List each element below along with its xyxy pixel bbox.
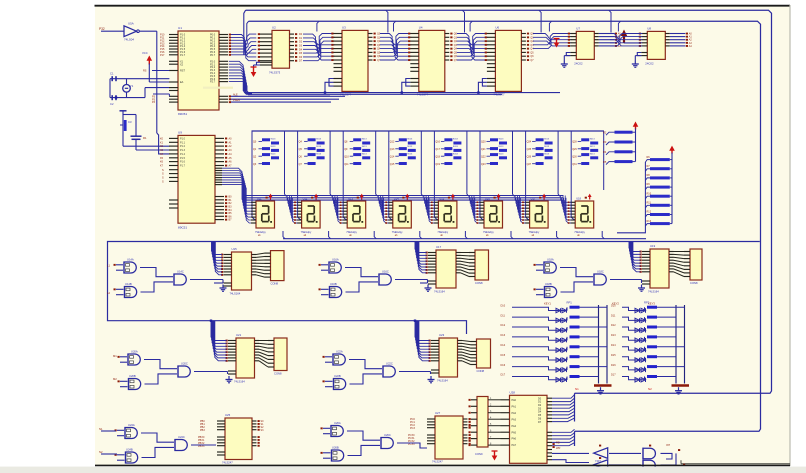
svg-text:U23: U23 <box>439 333 445 337</box>
svg-text:9013: 9013 <box>316 146 322 148</box>
transistor group Q13-Q16 <box>389 131 424 220</box>
svg-text:VCC: VCC <box>142 51 148 55</box>
svg-text:U20C: U20C <box>181 362 188 366</box>
bottom margin strip <box>0 467 806 473</box>
display DS2 <box>297 194 321 238</box>
svg-text:PA6: PA6 <box>512 438 517 441</box>
svg-text:9013: 9013 <box>407 146 413 148</box>
svg-text:D10: D10 <box>611 304 616 307</box>
svg-text:D16: D16 <box>501 364 506 367</box>
svg-text:N2: N2 <box>648 387 652 391</box>
title block corner <box>681 460 790 465</box>
shift register U15 <box>212 242 285 296</box>
svg-text:U19: U19 <box>650 244 656 248</box>
svg-text:24C02: 24C02 <box>645 62 654 66</box>
ground U17 <box>425 285 432 292</box>
wire DS1 common <box>283 231 285 239</box>
svg-text:N2: N2 <box>99 450 103 454</box>
svg-text:ALE: ALE <box>233 93 238 96</box>
svg-text:74LS377: 74LS377 <box>493 93 505 97</box>
svg-text:PA1: PA1 <box>512 405 517 408</box>
svg-text:74LS164: 74LS164 <box>234 380 245 384</box>
svg-text:9013: 9013 <box>590 153 596 155</box>
svg-text:Q30: Q30 <box>572 155 577 158</box>
svg-text:P1.2: P1.2 <box>180 145 186 148</box>
svg-text:U18: U18 <box>576 196 581 200</box>
svg-text:D10: D10 <box>501 304 506 307</box>
wire DS8 common <box>602 231 604 239</box>
wire reset top <box>123 115 136 137</box>
wire s4 tap2 <box>414 320 416 322</box>
svg-text:D13: D13 <box>611 334 616 337</box>
ground U23 <box>428 376 435 383</box>
wire P0 braid <box>231 34 256 61</box>
svg-text:Q25: Q25 <box>527 148 532 151</box>
U2 output labels <box>299 33 303 63</box>
memory U7 <box>568 26 622 65</box>
svg-text:U4: U4 <box>419 25 423 29</box>
display DS4 <box>388 194 412 238</box>
svg-text:U18A: U18A <box>547 258 554 262</box>
svg-text:P17: P17 <box>160 54 165 57</box>
key labels <box>544 302 655 306</box>
svg-text:PB3: PB3 <box>200 429 205 432</box>
connector J2 <box>469 397 501 457</box>
svg-text:Q10: Q10 <box>344 155 349 158</box>
resistor ladder R2-R5 <box>603 122 638 165</box>
gate U30B <box>643 460 655 471</box>
svg-text:P2.7: P2.7 <box>210 81 216 84</box>
latch U2 74LS373 <box>258 26 297 75</box>
transistor group Q5-Q8 <box>298 131 333 220</box>
svg-text:U1: U1 <box>178 26 182 30</box>
transistor group Q25-Q28 <box>526 131 561 220</box>
svg-text:CON9: CON9 <box>475 452 483 456</box>
latch U3 74LS377 <box>331 25 381 96</box>
svg-text:Q26: Q26 <box>527 155 532 158</box>
svg-text:Q17: Q17 <box>435 148 440 151</box>
svg-text:PA3: PA3 <box>512 418 517 421</box>
crystal Y1 <box>123 84 134 92</box>
wire DS6 common <box>511 231 513 239</box>
wire U6 control <box>477 79 487 94</box>
svg-text:9013: 9013 <box>407 139 413 141</box>
svg-text:9013: 9013 <box>316 153 322 155</box>
svg-text:RP1: RP1 <box>567 300 573 304</box>
svg-text:RS: RS <box>143 70 147 73</box>
svg-text:P1.4: P1.4 <box>180 153 186 156</box>
svg-text:9013: 9013 <box>499 153 505 155</box>
svg-text:R3: R3 <box>603 140 607 144</box>
svg-text:Q12: Q12 <box>390 141 395 144</box>
transistor group Q21-Q24 <box>480 131 515 220</box>
svg-text:KEY1: KEY1 <box>544 302 551 306</box>
svg-text:Q16: Q16 <box>435 141 440 144</box>
svg-text:U15: U15 <box>232 247 238 251</box>
svg-text:PA5: PA5 <box>512 431 517 434</box>
svg-text:U28: U28 <box>510 390 516 394</box>
svg-text:U8: U8 <box>647 26 651 30</box>
svg-text:U11: U11 <box>257 196 262 200</box>
wire U3 control <box>324 79 334 94</box>
svg-text:74LS164: 74LS164 <box>437 379 448 383</box>
microcontroller U9 <box>160 130 215 229</box>
wire U9 display bundle <box>222 168 251 223</box>
svg-text:7SEGdpy: 7SEGdpy <box>346 231 357 234</box>
wire U1 left misc <box>153 94 169 96</box>
interface U28 8255 <box>501 390 553 472</box>
svg-text:D17: D17 <box>611 374 616 377</box>
svg-text:U26B: U26B <box>332 446 339 450</box>
svg-text:D14: D14 <box>501 344 506 347</box>
wire U20C out <box>194 372 228 375</box>
wire U8 gnd <box>635 53 641 61</box>
svg-text:U25: U25 <box>225 413 231 417</box>
svg-text:U20A: U20A <box>131 350 138 354</box>
svg-text:7SEGdpy: 7SEGdpy <box>255 231 266 234</box>
svg-text:C1: C1 <box>110 72 114 76</box>
net label P3.2 <box>99 27 124 31</box>
svg-text:D17: D17 <box>501 374 506 377</box>
sheet bottom border line <box>95 464 790 466</box>
wire top bus P0 <box>246 10 772 421</box>
svg-text:L1: L1 <box>107 264 110 268</box>
svg-text:N1: N1 <box>99 427 103 431</box>
svg-text:P1.3: P1.3 <box>180 149 186 152</box>
svg-text:7SEGdpy: 7SEGdpy <box>483 231 494 234</box>
display DS8 <box>570 194 594 238</box>
svg-text:D12: D12 <box>611 324 616 327</box>
svg-text:9013: 9013 <box>453 153 459 155</box>
wire ALE PSEN <box>231 93 345 102</box>
wire U24C out <box>191 444 216 446</box>
wire DS2 fan <box>287 196 298 224</box>
svg-text:D15: D15 <box>611 354 616 357</box>
gate U30A <box>643 445 655 460</box>
svg-text:9013: 9013 <box>590 146 596 148</box>
svg-text:7SEGdpy: 7SEGdpy <box>301 231 312 234</box>
ground U15 <box>220 285 227 292</box>
display DS7 <box>525 194 549 238</box>
buffer U29B <box>594 457 608 470</box>
wire U2 OE <box>254 62 261 67</box>
svg-text:C2: C2 <box>110 102 114 106</box>
wire top bus risers <box>244 10 621 55</box>
svg-text:89C51: 89C51 <box>178 112 187 116</box>
svg-text:U20B: U20B <box>129 374 136 378</box>
svg-text:CON8: CON8 <box>477 369 485 373</box>
svg-text:7SEGdpy: 7SEGdpy <box>437 231 448 234</box>
svg-text:7SEGdpy: 7SEGdpy <box>529 231 540 234</box>
wire xtal top <box>110 79 169 98</box>
net stub s4 <box>113 354 117 381</box>
svg-text:9013: 9013 <box>544 139 550 141</box>
wire U18C out <box>610 280 642 284</box>
wire DS5 common <box>465 231 467 239</box>
wire DS4 fan <box>378 196 389 224</box>
wire inverter output <box>140 31 170 154</box>
wire U16C out <box>395 280 428 284</box>
svg-text:U22B: U22B <box>334 374 341 378</box>
svg-text:Q24: Q24 <box>527 141 532 144</box>
svg-text:9013: 9013 <box>590 139 596 141</box>
svg-text:P1.6: P1.6 <box>180 161 186 164</box>
svg-text:U7: U7 <box>576 26 580 30</box>
svg-text:74LS164: 74LS164 <box>434 290 445 294</box>
svg-text:Q31: Q31 <box>572 163 577 166</box>
shift register U19 <box>629 242 702 294</box>
svg-text:9013: 9013 <box>499 139 505 141</box>
svg-text:Q19: Q19 <box>435 163 440 166</box>
transistor group Q29-Q32 <box>571 131 604 220</box>
wire buffer feed <box>552 453 589 462</box>
svg-text:Q11: Q11 <box>344 163 349 166</box>
shift register U21 <box>211 321 287 384</box>
gate cluster U18 <box>534 258 607 299</box>
ground U21 <box>226 376 233 383</box>
wire DS4 common <box>420 231 422 239</box>
svg-text:RD: RD <box>556 441 560 445</box>
ground U7 <box>561 61 568 68</box>
svg-text:U13: U13 <box>348 196 353 200</box>
latch U4 74LS377 <box>408 25 458 96</box>
svg-text:D11: D11 <box>501 314 506 317</box>
gate cluster U16 <box>319 258 392 299</box>
wire latch control bus <box>248 93 560 96</box>
svg-text:P1.0: P1.0 <box>180 138 186 141</box>
svg-text:U18B: U18B <box>545 282 552 286</box>
svg-text:L2: L2 <box>107 291 110 295</box>
wire top bus 2 <box>249 21 761 446</box>
capacitor C2 <box>110 95 116 106</box>
svg-text:9013: 9013 <box>362 153 368 155</box>
svg-text:74LS247: 74LS247 <box>222 461 233 465</box>
sheet top border line <box>95 5 791 7</box>
power VCC arrow <box>142 51 169 82</box>
svg-text:P0.7: P0.7 <box>210 54 216 57</box>
power arrow U8 dark <box>621 30 641 44</box>
transistor group Q1-Q4 <box>252 131 287 220</box>
svg-text:U26A: U26A <box>334 421 341 425</box>
svg-text:U14C: U14C <box>177 270 184 274</box>
svg-text:7SEGdpy: 7SEGdpy <box>574 231 585 234</box>
svg-text:7SEGdpy: 7SEGdpy <box>392 231 403 234</box>
svg-text:74LS164: 74LS164 <box>230 292 241 296</box>
capacitor C3 reset <box>120 111 132 146</box>
svg-text:U26C: U26C <box>384 433 391 437</box>
svg-text:CON8: CON8 <box>271 282 279 286</box>
inverter U5A <box>124 22 139 42</box>
svg-text:D13: D13 <box>501 334 506 337</box>
wire U3 output bundle <box>380 34 411 61</box>
svg-text:U17: U17 <box>436 245 442 249</box>
svg-text:N1: N1 <box>575 387 579 391</box>
svg-text:P1.5: P1.5 <box>180 157 186 160</box>
svg-text:9013: 9013 <box>407 153 413 155</box>
svg-text:Q18: Q18 <box>435 155 440 158</box>
wire DS5 fan <box>424 196 435 224</box>
wire display bottom net <box>283 238 646 240</box>
svg-text:U14: U14 <box>394 196 399 200</box>
LED-resistor array RP2 <box>611 300 689 394</box>
sheet right edge <box>789 5 791 466</box>
buffer U29A <box>594 445 608 463</box>
svg-text:Q23: Q23 <box>481 163 486 166</box>
svg-text:D14: D14 <box>611 344 616 347</box>
svg-text:U16B: U16B <box>330 282 337 286</box>
svg-text:9013: 9013 <box>544 146 550 148</box>
wire xtal bottom <box>110 88 169 99</box>
svg-text:Q20: Q20 <box>481 141 486 144</box>
memory U8 <box>639 26 693 65</box>
svg-text:D12: D12 <box>501 324 506 327</box>
svg-text:U6: U6 <box>495 25 499 29</box>
svg-text:M2: M2 <box>113 377 117 381</box>
svg-text:U24C: U24C <box>178 435 185 439</box>
gate cluster U24 <box>115 423 188 464</box>
svg-text:9013: 9013 <box>453 139 459 141</box>
ground U19 <box>638 285 645 292</box>
svg-text:Q21: Q21 <box>481 148 486 151</box>
wire U4 control <box>401 79 411 94</box>
wire DS6 fan <box>470 196 481 224</box>
wire DS7 fan <box>515 196 526 224</box>
wire U8 feed <box>610 34 642 46</box>
svg-text:24C02: 24C02 <box>574 62 583 66</box>
wire U2-U3 bundle <box>303 34 335 61</box>
svg-text:Q28: Q28 <box>572 141 577 144</box>
svg-text:U15: U15 <box>439 196 444 200</box>
net stub s5 <box>99 427 117 454</box>
svg-text:U9: U9 <box>178 130 182 134</box>
wire cell top bus <box>252 130 605 132</box>
wire U22C out <box>399 372 431 375</box>
svg-text:D16: D16 <box>611 364 616 367</box>
svg-text:P1.7: P1.7 <box>180 165 186 168</box>
wire U26C out <box>397 443 427 448</box>
wire U7 gnd <box>564 53 570 61</box>
svg-text:P1.7: P1.7 <box>180 54 186 57</box>
svg-text:9013: 9013 <box>544 153 550 155</box>
U1 right pins <box>210 34 231 104</box>
svg-text:74LS247: 74LS247 <box>432 460 443 464</box>
wire U28 B bus <box>552 429 575 445</box>
gate cluster U20 <box>118 350 191 391</box>
svg-text:CON8: CON8 <box>475 281 483 285</box>
svg-text:9013: 9013 <box>271 139 277 141</box>
svg-text:U5A: U5A <box>128 22 134 26</box>
wire xtal mid <box>126 79 128 98</box>
wire U14C out <box>190 280 223 284</box>
svg-text:CON8: CON8 <box>690 281 698 285</box>
net labels bottom <box>575 387 652 391</box>
svg-text:PC3: PC3 <box>410 427 415 430</box>
capacitor C1 <box>110 72 116 82</box>
svg-text:P1.1: P1.1 <box>180 141 186 144</box>
wire segment bus <box>243 196 564 201</box>
svg-text:Y1: Y1 <box>130 84 134 88</box>
svg-text:EA: EA <box>180 81 184 84</box>
svg-text:R4: R4 <box>603 150 607 154</box>
svg-text:U21: U21 <box>236 333 242 337</box>
LED-resistor array RP1 <box>501 300 612 394</box>
wire s4 tap <box>210 320 212 322</box>
svg-text:9013: 9013 <box>362 139 368 141</box>
U9 right pins <box>215 138 232 222</box>
svg-text:74LS373: 74LS373 <box>269 71 281 75</box>
svg-text:9013: 9013 <box>453 146 459 148</box>
svg-text:Q13: Q13 <box>390 148 395 151</box>
selection artifact <box>203 87 233 89</box>
svg-text:U14B: U14B <box>125 282 132 286</box>
display DS1 <box>251 194 275 238</box>
svg-text:U2: U2 <box>272 26 276 30</box>
svg-text:U24B: U24B <box>126 448 133 452</box>
svg-text:Q29: Q29 <box>572 148 577 151</box>
svg-text:WR: WR <box>556 446 560 450</box>
svg-text:M1: M1 <box>113 354 117 358</box>
svg-text:D15: D15 <box>501 354 506 357</box>
resistor ladder R6-R13 <box>617 146 675 233</box>
svg-text:U22C: U22C <box>386 362 393 366</box>
svg-text:R1: R1 <box>143 136 147 140</box>
svg-text:PSEN: PSEN <box>233 99 240 102</box>
display DS3 <box>342 194 366 238</box>
display DS5 <box>433 194 457 238</box>
wire DS8 fan <box>561 196 572 224</box>
capacitor C4 <box>131 136 147 140</box>
wire reset to IC2 <box>123 139 169 150</box>
wire mid long net <box>108 242 760 335</box>
shift register U23 <box>415 321 491 383</box>
transistor group Q17-Q20 <box>434 131 469 220</box>
svg-text:U14A: U14A <box>127 258 134 262</box>
svg-text:PA0: PA0 <box>512 399 517 402</box>
svg-text:U22A: U22A <box>336 350 343 354</box>
gate cluster U22 <box>323 350 396 391</box>
wire buffer links <box>609 444 680 465</box>
wire DS7 common <box>557 231 559 239</box>
svg-text:D11: D11 <box>611 314 616 317</box>
svg-text:74LS164: 74LS164 <box>648 290 659 294</box>
svg-text:P32: P32 <box>99 27 105 31</box>
svg-text:Q15: Q15 <box>390 163 395 166</box>
svg-text:Q14: Q14 <box>390 155 395 158</box>
svg-text:PA2: PA2 <box>512 412 517 415</box>
svg-text:74LS377: 74LS377 <box>417 93 429 97</box>
latch U6 74LS377 <box>485 25 535 96</box>
svg-text:INT: INT <box>666 444 671 447</box>
wire U28 D bus <box>552 395 575 422</box>
svg-text:U16C: U16C <box>382 270 389 274</box>
svg-text:74LS04: 74LS04 <box>124 38 134 42</box>
svg-text:U18C: U18C <box>597 270 604 274</box>
svg-text:9013: 9013 <box>271 146 277 148</box>
svg-text:U16: U16 <box>485 196 490 200</box>
svg-text:9013: 9013 <box>362 146 368 148</box>
net stub s3 <box>107 264 110 296</box>
display DS6 <box>479 194 503 238</box>
gate cluster U26 <box>321 421 394 462</box>
svg-text:9013: 9013 <box>316 139 322 141</box>
svg-text:89C51: 89C51 <box>178 226 187 230</box>
svg-text:U3: U3 <box>342 25 346 29</box>
power GND arrow U2 <box>251 67 257 77</box>
svg-text:PA7: PA7 <box>512 444 517 447</box>
svg-text:U24A: U24A <box>128 423 135 427</box>
svg-text:C3: C3 <box>128 120 132 124</box>
svg-text:R2: R2 <box>603 130 607 134</box>
